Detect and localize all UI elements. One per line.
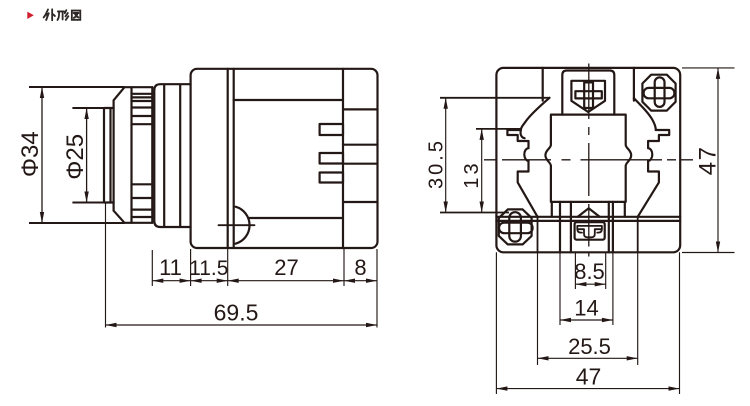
thread ribs xyxy=(132,94,153,217)
left castellated profile xyxy=(507,130,537,217)
arrows 11 xyxy=(152,279,163,283)
dim Phi25 line xyxy=(86,108,88,203)
top-right screw octagon xyxy=(642,75,675,111)
boss cross line xyxy=(219,224,255,226)
dim 13 ext line xyxy=(476,128,522,130)
button cap face xyxy=(104,108,114,203)
arrows Phi25 xyxy=(84,108,88,119)
terminal pins xyxy=(320,124,343,135)
central block with side bulges xyxy=(545,115,631,202)
arrows 11.5 xyxy=(191,279,202,283)
body flange double line xyxy=(228,69,234,248)
dim 30.5 ext lines xyxy=(440,98,550,213)
svg-text:25.5: 25.5 xyxy=(568,334,611,359)
dim 47 bottom line xyxy=(496,388,679,390)
dim 47 right ext lines xyxy=(682,68,735,253)
top terminal tower xyxy=(562,71,614,115)
left upper curve xyxy=(521,98,550,130)
bezel ring xyxy=(114,87,153,223)
svg-text:11: 11 xyxy=(159,255,182,280)
top-right pocket wall xyxy=(633,68,635,101)
bottom-left screw cross xyxy=(499,223,533,234)
body outline xyxy=(191,69,378,248)
arrows 27 xyxy=(228,279,239,283)
svg-text:13: 13 xyxy=(461,160,483,188)
dim 14 line xyxy=(560,319,613,321)
svg-text:47: 47 xyxy=(576,363,602,389)
arrows 47 right xyxy=(716,68,720,79)
right column dividers xyxy=(343,109,378,202)
svg-text:69.5: 69.5 xyxy=(214,300,259,326)
back square outline xyxy=(496,68,680,252)
top-right screw cross xyxy=(644,88,675,98)
threaded section edges xyxy=(132,87,153,223)
bottom screw slot detail xyxy=(577,226,602,237)
bottom pocket side walls xyxy=(538,217,638,252)
chained dim line xyxy=(152,280,377,282)
bottom tower verticals xyxy=(560,202,613,252)
svg-text:47: 47 xyxy=(695,146,722,176)
dim 69.5 line xyxy=(106,324,378,326)
bottom screw house peak xyxy=(578,208,600,217)
arrows 69.5 xyxy=(106,323,117,327)
dim Phi25 ext lines xyxy=(72,108,111,203)
bottom seam lines xyxy=(496,217,680,221)
dim 13 line xyxy=(481,129,483,213)
top screw shield xyxy=(571,81,605,112)
arrows 25.5 xyxy=(538,356,549,360)
svg-text:11.5: 11.5 xyxy=(189,257,228,280)
dim Phi34 line xyxy=(41,87,43,223)
chained dim ext lines xyxy=(152,249,344,286)
body inner right vertical xyxy=(342,69,344,248)
svg-text:30.5: 30.5 xyxy=(426,138,448,189)
right castellated profile xyxy=(638,130,670,217)
dim 47 right line xyxy=(717,68,719,253)
svg-text:Φ25: Φ25 xyxy=(62,134,89,180)
arrows 14 xyxy=(560,318,571,322)
arrows 13 xyxy=(480,129,484,140)
block skirt verticals xyxy=(552,202,625,217)
center line vertical xyxy=(588,64,590,257)
mounting boss semicircle xyxy=(236,207,250,244)
bottom screw pocket xyxy=(575,222,605,240)
body inner top line xyxy=(234,99,343,101)
svg-text:27: 27 xyxy=(274,255,298,280)
left profile curve tail xyxy=(520,130,524,138)
svg-text:8: 8 xyxy=(354,255,366,280)
bottom-left screw octagon xyxy=(499,209,532,244)
locking collar xyxy=(154,84,190,227)
top screw cross bars xyxy=(575,91,601,98)
center line horizontal xyxy=(484,159,693,161)
svg-text:14: 14 xyxy=(574,296,598,321)
header red triangle bullet xyxy=(27,12,34,19)
right upper curve xyxy=(634,98,656,130)
arrows 47 bottom xyxy=(496,386,507,390)
dim Phi34 ext lines xyxy=(29,87,125,223)
dim 69.5 ext lines xyxy=(106,204,378,328)
arrows 8.5 xyxy=(575,282,586,286)
top-left pocket wall xyxy=(542,68,544,101)
dim 25.5 line xyxy=(538,357,638,359)
arrows 30.5 xyxy=(444,98,448,109)
dim 30.5 line xyxy=(445,98,447,213)
body inner bottom line xyxy=(248,217,343,219)
svg-text:Φ34: Φ34 xyxy=(17,131,44,177)
header label 外形图 (drawn strokes) xyxy=(44,9,81,20)
arrows Phi34 xyxy=(40,87,44,98)
svg-text:8.5: 8.5 xyxy=(574,259,605,284)
arrows 8 xyxy=(344,279,355,283)
bottom dims ext lines xyxy=(496,252,679,394)
dim 8.5 line xyxy=(575,283,605,285)
